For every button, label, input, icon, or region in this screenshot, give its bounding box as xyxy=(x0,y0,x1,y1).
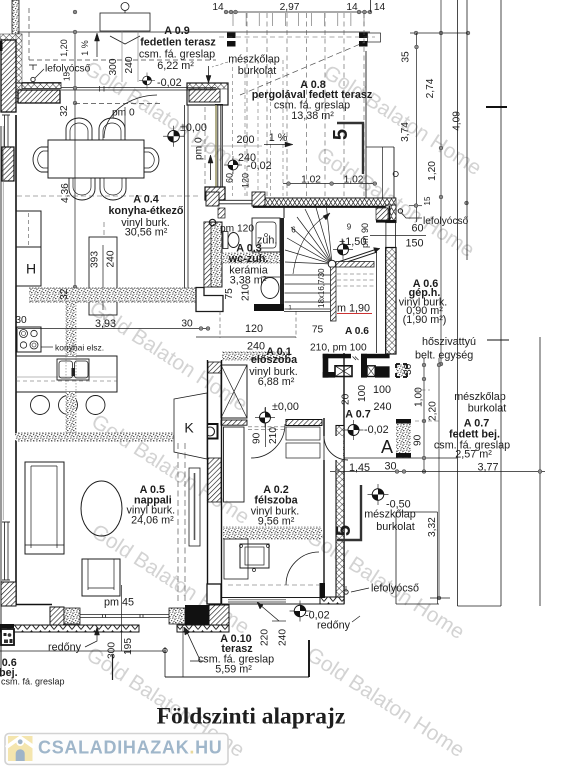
svg-text:15: 15 xyxy=(423,196,432,205)
svg-text:300: 300 xyxy=(107,642,118,659)
svg-text:240: 240 xyxy=(247,341,265,353)
svg-text:150: 150 xyxy=(405,238,423,250)
svg-text:Földszinti alaprajz: Földszinti alaprajz xyxy=(157,704,346,730)
svg-text:±0,00: ±0,00 xyxy=(272,401,299,413)
svg-text:4,36: 4,36 xyxy=(60,183,71,203)
svg-text:burkolat: burkolat xyxy=(238,65,276,77)
svg-text:1 %: 1 % xyxy=(80,40,90,56)
svg-text:18x16,7/30: 18x16,7/30 xyxy=(317,268,326,308)
svg-text:2,20: 2,20 xyxy=(428,401,439,421)
svg-text:1,00: 1,00 xyxy=(414,387,425,407)
svg-text:belt. egység: belt. egység xyxy=(415,350,473,362)
svg-text:24,06 m²: 24,06 m² xyxy=(131,515,174,527)
svg-text:5: 5 xyxy=(333,525,355,536)
svg-text:210: 210 xyxy=(268,427,279,444)
svg-text:30: 30 xyxy=(15,315,27,326)
svg-text:pm 90: pm 90 xyxy=(360,223,370,248)
svg-text:75: 75 xyxy=(224,288,235,300)
svg-text:wc-zuh.: wc-zuh. xyxy=(228,253,269,265)
svg-text:m 1,90: m 1,90 xyxy=(337,303,370,315)
svg-text:220: 220 xyxy=(260,629,271,646)
svg-text:15: 15 xyxy=(63,72,72,81)
svg-text:32: 32 xyxy=(59,288,70,300)
svg-text:1,02: 1,02 xyxy=(344,175,364,186)
svg-text:100: 100 xyxy=(373,384,391,396)
svg-text:1,02: 1,02 xyxy=(301,175,321,186)
svg-text:lefolyócső: lefolyócső xyxy=(423,216,469,227)
svg-text:-0,02: -0,02 xyxy=(364,424,389,436)
svg-text:9,56 m²: 9,56 m² xyxy=(258,516,295,528)
svg-text:hőszivattyú: hőszivattyú xyxy=(422,336,476,348)
svg-text:120: 120 xyxy=(245,323,263,335)
svg-text:6,22 m²: 6,22 m² xyxy=(157,60,194,72)
svg-text:4,09: 4,09 xyxy=(452,111,463,131)
svg-text:5: 5 xyxy=(330,129,352,140)
svg-text:félszoba: félszoba xyxy=(254,494,298,506)
svg-text:K: K xyxy=(184,420,194,436)
svg-text:30: 30 xyxy=(403,363,414,375)
svg-text:A 0.9: A 0.9 xyxy=(164,25,189,37)
svg-text:1: 1 xyxy=(288,305,292,312)
svg-text:(1,90 m²): (1,90 m²) xyxy=(403,314,447,326)
svg-text:30,56 m²: 30,56 m² xyxy=(125,227,168,239)
svg-text:H: H xyxy=(26,261,36,277)
svg-text:előszoba: előszoba xyxy=(251,354,298,366)
svg-text:2,74: 2,74 xyxy=(425,78,436,98)
svg-text:mészkőlap: mészkőlap xyxy=(364,509,416,521)
svg-text:300: 300 xyxy=(108,58,119,75)
svg-text:pm 0: pm 0 xyxy=(112,108,135,119)
svg-text:90: 90 xyxy=(252,432,263,444)
svg-text:konyhai elsz.: konyhai elsz. xyxy=(55,343,104,353)
svg-text:210: 210 xyxy=(241,284,252,301)
svg-text:5,59 m²: 5,59 m² xyxy=(215,664,252,676)
svg-text:393: 393 xyxy=(90,251,101,268)
svg-text:60: 60 xyxy=(411,223,423,235)
svg-text:90: 90 xyxy=(413,434,424,446)
svg-text:210, pm 100: 210, pm 100 xyxy=(310,343,367,354)
svg-text:redőny: redőny xyxy=(317,620,351,632)
svg-text:pm 0: pm 0 xyxy=(194,137,205,160)
svg-text:60: 60 xyxy=(225,173,235,183)
svg-text:20: 20 xyxy=(341,393,352,405)
svg-text:14: 14 xyxy=(212,2,224,13)
svg-text:14: 14 xyxy=(346,2,358,13)
svg-text:pm 45: pm 45 xyxy=(104,597,134,609)
svg-text:35: 35 xyxy=(401,51,412,63)
svg-text:6: 6 xyxy=(291,226,296,235)
svg-text:A 0.7: A 0.7 xyxy=(345,409,370,421)
svg-text:1,45: 1,45 xyxy=(349,462,370,474)
svg-text:pm 120: pm 120 xyxy=(220,224,254,235)
svg-text:csm. fá. greslap: csm. fá. greslap xyxy=(139,49,215,61)
svg-text:mészkőlap: mészkőlap xyxy=(454,391,506,403)
svg-text:2,97: 2,97 xyxy=(280,2,300,13)
svg-text:csm. fá. greslap: csm. fá. greslap xyxy=(1,677,65,687)
svg-text:200: 200 xyxy=(236,134,254,146)
svg-text:A 0.6: A 0.6 xyxy=(345,326,369,337)
svg-text:1,20: 1,20 xyxy=(427,161,438,181)
svg-text:14: 14 xyxy=(374,2,386,13)
svg-text:3,93: 3,93 xyxy=(95,318,116,330)
svg-text:13,38 m²: 13,38 m² xyxy=(291,110,334,122)
svg-text:A: A xyxy=(381,437,393,457)
svg-text:A 0.4: A 0.4 xyxy=(133,194,158,206)
svg-text:burkolat: burkolat xyxy=(468,403,506,415)
svg-text:120: 120 xyxy=(241,173,251,188)
svg-text:6,88 m²: 6,88 m² xyxy=(258,376,295,388)
svg-text:75: 75 xyxy=(312,325,324,336)
svg-text:3,74: 3,74 xyxy=(400,122,411,142)
svg-text:240: 240 xyxy=(124,56,135,73)
svg-text:32: 32 xyxy=(59,105,70,117)
svg-text:240: 240 xyxy=(106,250,117,267)
svg-text:konyha-étkező: konyha-étkező xyxy=(109,205,184,217)
svg-text:240: 240 xyxy=(373,401,391,413)
svg-text:fedetlen terasz: fedetlen terasz xyxy=(140,37,216,49)
svg-text:30: 30 xyxy=(181,319,193,330)
svg-text:9: 9 xyxy=(347,223,352,232)
svg-text:-0,02: -0,02 xyxy=(247,160,272,172)
svg-text:240: 240 xyxy=(278,629,289,646)
svg-text:1,20: 1,20 xyxy=(59,39,69,57)
svg-text:195: 195 xyxy=(123,638,134,655)
svg-text:burkolat: burkolat xyxy=(376,521,414,533)
svg-text:30: 30 xyxy=(384,461,396,473)
svg-text:3,32: 3,32 xyxy=(427,517,438,537)
svg-text:mészkőlap: mészkőlap xyxy=(228,54,280,66)
svg-text:CSALADIHAZAK.HU: CSALADIHAZAK.HU xyxy=(38,738,223,758)
svg-text:3,77: 3,77 xyxy=(477,462,498,474)
svg-text:-0,02: -0,02 xyxy=(157,77,182,89)
svg-text:lefolyócső: lefolyócső xyxy=(371,583,419,595)
svg-text:redőny: redőny xyxy=(48,642,82,654)
svg-text:100: 100 xyxy=(357,385,368,402)
svg-text:±0,00: ±0,00 xyxy=(180,122,207,134)
svg-text:2,57 m²: 2,57 m² xyxy=(455,449,492,461)
